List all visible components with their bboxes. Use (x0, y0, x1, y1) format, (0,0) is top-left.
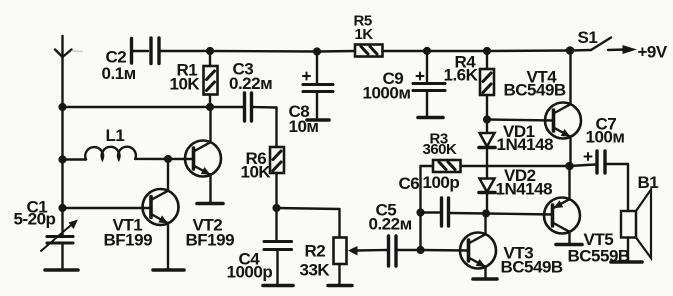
capacitor C3 (245, 93, 252, 121)
ground under VT2 (197, 202, 223, 206)
ground under C8 (307, 118, 329, 122)
capacitor C5 (389, 236, 421, 266)
transistor VT4 (545, 51, 581, 167)
ground under VT1 (153, 268, 184, 272)
diode VD2 (479, 179, 495, 214)
wire L1 node to C1 node (61, 160, 63, 209)
wire R4 node to S1 node (487, 49, 570, 52)
svg-text:10K: 10K (170, 75, 201, 94)
wire R1 node to C3 (210, 106, 243, 108)
wire C1 node down to C1 (61, 208, 63, 236)
wire C9 node to R4 node (427, 50, 487, 52)
capacitor C8 (303, 52, 333, 120)
svg-text:+9V: +9V (638, 43, 668, 62)
capacitor C7 (570, 151, 629, 173)
svg-text:10K: 10K (241, 163, 272, 182)
transistor VT3 (460, 214, 496, 279)
wire antenna stub to C2 (72, 50, 82, 53)
svg-text:BF199: BF199 (186, 231, 235, 250)
wire C2 to node A (161, 50, 210, 52)
svg-text:BF199: BF199 (104, 231, 153, 250)
svg-text:BC549B: BC549B (501, 258, 563, 277)
wire VT4 base (487, 120, 554, 121)
potentiometer R2 (334, 238, 388, 285)
svg-text:1N4148: 1N4148 (496, 180, 553, 199)
transistor VT1 (63, 159, 179, 269)
diode VD1 (479, 120, 495, 179)
svg-text:L1: L1 (106, 126, 125, 145)
wire C8 node to R5 (317, 50, 355, 53)
svg-text:1.6K: 1.6K (444, 66, 479, 85)
svg-text:BC559B: BC559B (568, 247, 630, 266)
node dots (58, 46, 574, 254)
capacitor C1 variable (41, 220, 78, 270)
ground under B1 (611, 260, 642, 264)
svg-text:S1: S1 (578, 28, 598, 47)
wire C3 to R6 (253, 107, 277, 147)
wire tank node to wire at y107 (63, 106, 211, 108)
svg-text:1000м: 1000м (363, 84, 411, 103)
wire R3 to output node (461, 165, 570, 167)
svg-text:100м: 100м (586, 128, 625, 147)
svg-text:0.22м: 0.22м (369, 215, 412, 234)
transistor VT5 (544, 166, 580, 244)
svg-text:1N4148: 1N4148 (497, 135, 554, 154)
svg-text:33K: 33K (300, 261, 331, 280)
ground under C4 (263, 284, 293, 288)
wire VT3 base (421, 249, 469, 252)
resistor R3 (421, 160, 461, 172)
svg-text:5-20p: 5-20p (14, 210, 56, 229)
ground under VT3 (473, 277, 497, 281)
switch S1 (570, 38, 611, 51)
resistor R5 (355, 45, 383, 57)
speaker B1 (621, 164, 651, 261)
svg-text:1K: 1K (355, 26, 374, 43)
svg-text:B1: B1 (638, 173, 659, 192)
ground under C9 (418, 116, 443, 120)
capacitor C2 (132, 38, 160, 64)
resistor R4 (480, 51, 494, 120)
inductor L1 (63, 147, 169, 160)
capacitor C9 (413, 51, 445, 117)
svg-text:R2: R2 (305, 242, 326, 261)
antenna (55, 36, 72, 107)
svg-text:C6: C6 (399, 174, 420, 193)
capacitor C6 (421, 198, 487, 226)
wire top rail node A to C8 node (210, 50, 317, 53)
wire R3 drop to C6 and C5 (419, 166, 421, 250)
ground under R2 (328, 284, 352, 288)
svg-text:1000p: 1000p (227, 263, 273, 282)
svg-text:360K: 360K (423, 141, 458, 158)
resistor R6 (270, 147, 284, 208)
wire left column antenna to L1 node (61, 107, 63, 160)
svg-text:100p: 100p (423, 173, 460, 192)
resistor R1 (204, 51, 218, 107)
wire VT5 base (486, 214, 553, 215)
wire R5 to C9 node (383, 50, 428, 52)
+9V supply arrow (608, 45, 637, 54)
wire R6 node to R2 (277, 208, 340, 237)
ground under C1 (45, 268, 78, 272)
wire R6 node to C4 (275, 208, 277, 240)
svg-text:BC549B: BC549B (504, 81, 566, 100)
svg-text:0.22м: 0.22м (229, 74, 272, 93)
ground under VT5 (556, 243, 582, 247)
capacitor C4 (264, 242, 292, 285)
svg-text:0.1м: 0.1м (102, 64, 136, 83)
transistor VT2 (168, 107, 221, 203)
svg-text:10м: 10м (289, 117, 319, 136)
